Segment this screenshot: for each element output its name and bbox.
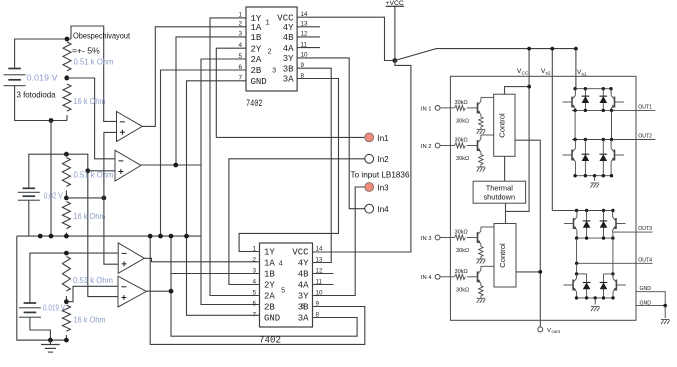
U2 pin13 stub — [297, 26, 320, 28]
junction Vs2 top — [550, 47, 554, 51]
junction Vcont line — [538, 270, 542, 274]
wire U1A output to U2 pin2 — [142, 27, 246, 127]
svg-text:Thermal: Thermal — [486, 184, 513, 193]
svg-text:16 k Ohm: 16 k Ohm — [74, 211, 106, 221]
wire U2 pin6 to common rail — [161, 70, 247, 236]
svg-text:In4: In4 — [378, 205, 390, 214]
bridge1 columns — [575, 110, 611, 139]
transistor Q10 (bridge2 upper-right) — [615, 218, 617, 229]
svg-text:7: 7 — [252, 311, 256, 318]
junction op-amp U1B plus tap — [85, 168, 90, 173]
wire Control2 to Vcont line — [516, 271, 540, 273]
svg-text:30kΩ: 30kΩ — [456, 156, 469, 162]
wire U2 pin4 to In1 line — [216, 48, 246, 137]
svg-text:3B: 3B — [283, 64, 294, 74]
wire U2 pin7 GND bus to U3 pin7 — [187, 81, 260, 315]
svg-text:VCC: VCC — [277, 13, 294, 23]
svg-text:0.02 V: 0.02 V — [44, 192, 63, 201]
svg-text:To input LB1836: To input LB1836 — [351, 170, 410, 180]
svg-text:4: 4 — [238, 42, 242, 49]
svg-text:9: 9 — [301, 62, 305, 69]
svg-text:shutdown: shutdown — [483, 193, 515, 202]
junction group2 top at R3 — [64, 152, 69, 157]
U3 pin12 stub — [313, 273, 334, 275]
svg-text:5: 5 — [238, 53, 242, 60]
svg-text:3: 3 — [238, 31, 242, 38]
svg-text:4: 4 — [279, 261, 283, 269]
wire GND pin 1 — [636, 292, 665, 306]
ground symbol output earth — [661, 319, 669, 321]
svg-text:3Y: 3Y — [298, 292, 309, 302]
wire +VCC diagonal feed to LB1836 supplies — [395, 49, 576, 61]
svg-text:4B: 4B — [283, 33, 294, 43]
svg-text:1A: 1A — [264, 259, 275, 269]
bridge1 ground stub — [594, 176, 596, 181]
junction ground rail at R6 — [64, 338, 69, 343]
node In1 (to LB1836) — [365, 133, 374, 142]
svg-text:3 fotodioda: 3 fotodioda — [17, 90, 56, 100]
wire to op-amp U1B plus — [88, 170, 115, 172]
svg-text:Control: Control — [498, 113, 507, 138]
wire op-amp U1A plus / column / op-amp U1C plus — [104, 132, 118, 264]
diode D2 — [602, 89, 604, 111]
svg-text:10: 10 — [316, 289, 324, 296]
block Thermal shutdown — [473, 181, 525, 203]
wire Q2 collector to Control1 — [481, 134, 494, 136]
svg-text:1: 1 — [252, 245, 256, 252]
svg-text:GND: GND — [251, 77, 267, 87]
resistor R5 0.51k (group3 upper) — [62, 257, 70, 291]
wire OUT1 rail — [572, 109, 655, 111]
wire group2 middle to column — [66, 197, 104, 199]
wire U2 pin14 to +VCC — [297, 17, 395, 60]
svg-text:IN 1: IN 1 — [421, 106, 432, 112]
svg-text:VCC: VCC — [292, 248, 309, 258]
transistor Q6 (bridge1 upper-right) — [614, 97, 616, 108]
svg-text:2B: 2B — [251, 66, 262, 76]
wire group3 middle to op-amp U1D minus — [66, 286, 118, 301]
svg-text:30kΩ: 30kΩ — [455, 269, 468, 275]
svg-text:4Y: 4Y — [298, 259, 309, 269]
svg-text:IN 2: IN 2 — [421, 144, 432, 150]
junction common at pin6 bus — [158, 234, 163, 239]
wire U2 pin10 to In4 line — [297, 58, 365, 209]
svg-text:30kΩ: 30kΩ — [456, 118, 469, 124]
svg-text:5: 5 — [281, 288, 285, 296]
op-amp U1A — [117, 112, 143, 142]
resistor R6 16k (group3 lower) — [62, 305, 70, 331]
junction VCC at control — [527, 85, 531, 89]
wire Q4 collector to Control2 — [481, 265, 494, 267]
transistor Q7 (bridge1 lower-left) — [571, 150, 573, 161]
block Control 1 — [494, 94, 515, 156]
wire In1 line — [216, 136, 364, 138]
bridge2 lower collector stubs — [577, 263, 613, 274]
wire U3 pin1 to U2 pin8 loop — [239, 79, 338, 252]
junction U1B output bus — [173, 163, 178, 168]
junction group1 bottom — [49, 118, 54, 123]
wire B2 bottom to common rail — [28, 200, 30, 236]
wire VCC drop — [506, 49, 530, 212]
resistor R3 0.51k (group2 upper) — [62, 158, 70, 187]
svg-text:16 k Ohm: 16 k Ohm — [74, 96, 106, 106]
svg-text:1Y: 1Y — [264, 248, 275, 258]
svg-text:8: 8 — [301, 72, 305, 79]
resistor R4 16k (group2 lower) — [62, 202, 70, 229]
svg-text:4Y: 4Y — [283, 23, 294, 33]
svg-text:s2: s2 — [546, 71, 551, 77]
op-amp U1C — [118, 243, 144, 273]
svg-text:30kΩ: 30kΩ — [456, 287, 469, 293]
junction common at R4 — [64, 234, 69, 239]
svg-text:Obespechivayout: Obespechivayout — [73, 31, 131, 41]
svg-text:3A: 3A — [283, 75, 294, 85]
wire common to U3 pin9 loop — [150, 236, 365, 344]
wire Vs1 drop — [575, 49, 577, 89]
svg-text:6: 6 — [252, 300, 256, 307]
svg-text:6: 6 — [301, 304, 305, 312]
diode D3 — [584, 140, 586, 176]
node A junction — [65, 37, 70, 42]
svg-text:2A: 2A — [264, 292, 275, 302]
wire U3 pin14 to +VCC node — [313, 61, 411, 253]
wire B1 top to node A — [15, 39, 71, 69]
svg-text:Control: Control — [498, 243, 507, 268]
battery B1 (photodiode stack 1) — [8, 68, 21, 70]
bridge2 ground stub — [594, 298, 596, 305]
svg-text:16 k Ohm: 16 k Ohm — [74, 315, 106, 325]
svg-text:9: 9 — [316, 300, 320, 307]
wire Control1 top to VCC — [505, 87, 530, 95]
svg-text:14: 14 — [316, 245, 324, 252]
transistor Q9 (bridge2 upper-left) — [573, 218, 575, 229]
IC LB1836 outline — [450, 76, 636, 320]
diode D1 — [584, 89, 586, 111]
svg-text:1B: 1B — [251, 33, 262, 43]
diode D6 — [603, 211, 605, 239]
svg-text:IN 3: IN 3 — [421, 236, 432, 242]
wire GND pin 2 — [636, 305, 665, 307]
svg-text:s1: s1 — [582, 72, 587, 78]
svg-text:2Y: 2Y — [264, 281, 275, 291]
svg-text:OUT3: OUT3 — [638, 226, 652, 232]
junction column at group2 middle — [102, 196, 107, 201]
ground symbol bridge1 — [590, 182, 598, 184]
junction group3 middle node — [64, 299, 69, 304]
diode D5 — [586, 211, 588, 239]
wire In2 line to U3 pin4 — [229, 159, 365, 285]
wire U2 pin3 to op-amp U1B output node — [176, 37, 246, 165]
svg-text:1A: 1A — [251, 23, 262, 33]
svg-text:1: 1 — [266, 20, 270, 28]
bridge1 bottom rail — [575, 175, 611, 177]
node Vcont — [538, 327, 543, 332]
op-amp/gate IC U2 7402 body — [246, 7, 297, 91]
bridge2 bottom rail — [577, 297, 614, 299]
wire GND to earth — [664, 306, 666, 318]
wire Control1 bottom to Thermal shutdown — [504, 156, 506, 181]
svg-text:4A: 4A — [283, 44, 294, 54]
svg-text:=+- 5%: =+- 5% — [72, 46, 100, 56]
svg-text:GND: GND — [640, 286, 652, 292]
bridge1 top rail — [574, 88, 612, 90]
junction common at GND bus — [184, 234, 189, 239]
wire node A riser to op-amp U1A minus — [71, 26, 117, 121]
node In3 — [365, 183, 374, 192]
wire +VCC riser — [394, 6, 396, 61]
op-amp U1D — [118, 276, 146, 307]
bridge2 mid rail — [577, 237, 613, 239]
svg-text:IN 4: IN 4 — [421, 275, 432, 281]
diode D7 — [586, 274, 588, 298]
transistor Q11 (bridge2 lower-left) — [572, 280, 574, 291]
svg-text:V: V — [547, 328, 551, 334]
wire Vs2 drop — [551, 49, 553, 211]
svg-text:7: 7 — [238, 75, 242, 82]
svg-text:In1: In1 — [378, 134, 390, 143]
svg-text:OUT2: OUT2 — [638, 134, 652, 140]
wire group1 bottom to common rail — [50, 121, 52, 237]
wire node B to op-amp U1B minus — [67, 78, 115, 159]
svg-text:30kΩ: 30kΩ — [455, 230, 468, 236]
junction common x40 — [38, 234, 43, 239]
svg-text:30kΩ: 30kΩ — [455, 138, 468, 144]
svg-text:0.51 k Ohm: 0.51 k Ohm — [74, 57, 114, 67]
wire B1 bottom rail — [15, 86, 67, 121]
svg-text:CC: CC — [522, 71, 529, 77]
resistor R1 0.51k (group1 upper) — [63, 42, 71, 71]
wire In3 line to U3 pin10 — [313, 187, 365, 296]
svg-text:10: 10 — [301, 52, 309, 59]
wire OUT4 line — [577, 262, 653, 264]
transistor Q12 (bridge2 lower-right) — [615, 280, 617, 291]
svg-text:cont: cont — [552, 329, 561, 334]
junction U1D output — [169, 289, 174, 294]
op-amp U1B — [115, 150, 141, 181]
svg-text:2A: 2A — [251, 55, 262, 65]
junction Vs1 top — [574, 47, 578, 51]
svg-text:30kΩ: 30kΩ — [456, 248, 469, 254]
svg-text:2: 2 — [268, 49, 272, 57]
junction GND pins — [663, 304, 667, 308]
svg-text:1B: 1B — [264, 270, 275, 280]
wire OUT2 rail — [572, 139, 655, 141]
svg-text:0.019 V: 0.019 V — [27, 73, 58, 83]
resistor R2 16k (group1 lower) — [63, 84, 71, 111]
battery B2 (photodiode stack 2) — [23, 187, 36, 189]
node In2 — [365, 154, 374, 163]
ground symbol (main earth) — [49, 340, 51, 344]
wire B3 bottom to ground rail — [30, 317, 51, 340]
junction +VCC node — [393, 58, 398, 63]
svg-text:7402: 7402 — [259, 335, 281, 347]
wire common rail — [17, 235, 201, 237]
wire Thermal shutdown to Control2 — [505, 203, 507, 223]
junction common at pin9 loop — [148, 234, 153, 239]
U2 pin12 stub — [297, 36, 320, 38]
U2 pin11 stub — [297, 47, 320, 49]
svg-text:2: 2 — [252, 256, 256, 263]
svg-text:4: 4 — [252, 278, 256, 285]
svg-text:8: 8 — [316, 311, 320, 318]
svg-text:In2: In2 — [378, 155, 390, 164]
wire op-amp U1D output bus / U3 pin3 / U3 pin8 loop — [146, 236, 357, 336]
svg-text:3A: 3A — [298, 314, 309, 324]
bridge2 columns — [577, 238, 613, 274]
junction VCC top — [527, 47, 531, 51]
wire Q3 collector to Control2 — [481, 226, 494, 228]
junction group2 middle node — [64, 196, 69, 201]
svg-text:2Y: 2Y — [251, 44, 262, 54]
wire OUT3 line — [613, 231, 653, 233]
NOR IC U3 7402 body — [260, 243, 313, 327]
svg-text:0.51 k Ohm: 0.51 k Ohm — [73, 275, 113, 285]
bridge2 top rail — [552, 210, 614, 212]
junction common x51 — [49, 234, 54, 239]
junction group3 top at R5 — [64, 251, 69, 256]
svg-text:GND: GND — [640, 301, 652, 307]
diode D4 — [602, 140, 604, 176]
svg-text:4A: 4A — [298, 281, 309, 291]
wire common rail left drop to ground rail — [17, 236, 67, 340]
wire op-amp U1C output to U3 pin2 — [144, 258, 259, 262]
svg-text:OUT4: OUT4 — [638, 257, 652, 263]
svg-text:3: 3 — [252, 267, 256, 274]
svg-text:GND: GND — [264, 314, 280, 324]
battery B3 (photodiode stack 3) — [24, 302, 37, 304]
svg-text:OUT1: OUT1 — [638, 104, 652, 110]
svg-text:14: 14 — [301, 11, 309, 18]
node B junction (R1/R2) — [64, 76, 69, 81]
svg-text:4B: 4B — [298, 270, 309, 280]
svg-text:13: 13 — [316, 256, 324, 263]
svg-text:0.51 k Ohm: 0.51 k Ohm — [74, 170, 114, 180]
wire B3 top / group3 top node to op-amp U1C minus — [30, 253, 118, 303]
svg-text:2: 2 — [238, 21, 242, 28]
junction ground rail at earth — [48, 338, 53, 343]
wire U2 pin9 to U3 pin13 — [297, 68, 331, 262]
svg-text:5: 5 — [252, 289, 256, 296]
junction common at U1D bus — [169, 234, 174, 239]
diode D8 — [603, 274, 605, 298]
block Control 2 — [494, 224, 516, 288]
wire U2 pin1 to U3 pin5 — [210, 18, 260, 296]
svg-text:6: 6 — [238, 64, 242, 71]
U3 pin11 stub — [313, 284, 334, 286]
svg-text:2B: 2B — [264, 303, 275, 313]
wire U1B output — [141, 164, 201, 166]
wire B2 top / group2 top node / descender to op-amp U1D plus — [29, 154, 118, 296]
wire Q1 collector to Control1 — [481, 96, 494, 98]
svg-text:3: 3 — [272, 68, 276, 76]
node In4 — [365, 204, 374, 213]
svg-text:In3: In3 — [378, 183, 390, 192]
wire Control1 to Vcont line — [515, 140, 540, 327]
transistor Q8 (bridge1 lower-right) — [614, 150, 616, 161]
ground symbol bridge2 — [591, 306, 599, 308]
svg-text:1: 1 — [238, 12, 242, 19]
transistor Q5 (bridge1 upper-left) — [571, 97, 573, 108]
wire ground rail — [17, 339, 67, 341]
svg-text:3Y: 3Y — [283, 54, 294, 64]
svg-text:30kΩ: 30kΩ — [455, 100, 468, 106]
svg-text:7402: 7402 — [246, 98, 263, 110]
wire U2 pin5 bus to U3 pin6 — [201, 59, 260, 305]
